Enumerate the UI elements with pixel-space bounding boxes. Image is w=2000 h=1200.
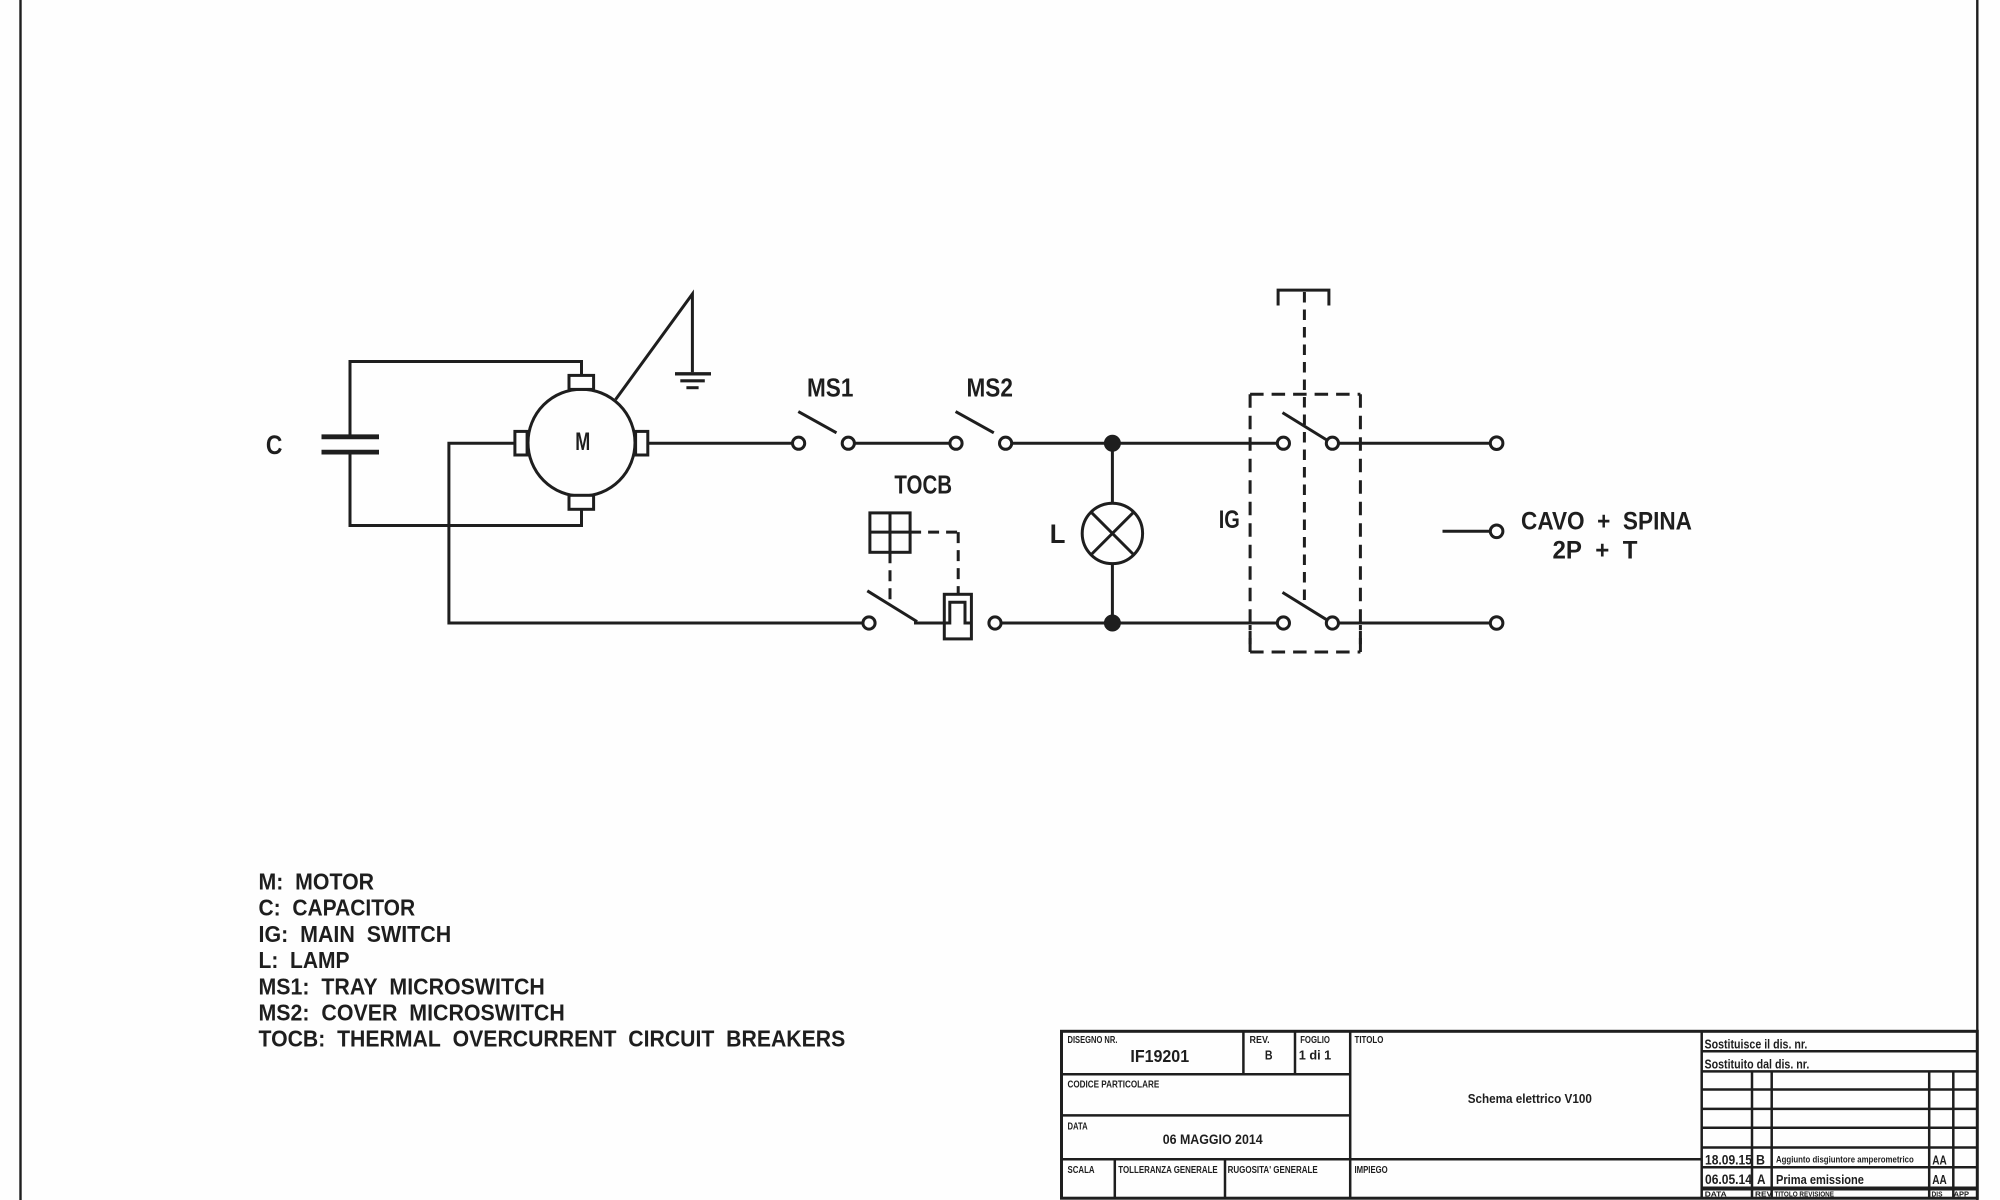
svg-text:MS1: MS1 [807,374,853,403]
svg-text:IF19201: IF19201 [1130,1046,1189,1066]
svg-text:AA: AA [1932,1174,1946,1187]
svg-text:Aggiunto disgiuntore amperomet: Aggiunto disgiuntore amperometrico [1776,1154,1914,1165]
svg-text:Sostituito dal dis. nr.: Sostituito dal dis. nr. [1705,1056,1810,1071]
svg-text:APP: APP [1954,1190,1969,1199]
svg-text:A: A [1757,1172,1765,1187]
svg-text:MS2: COVER MICROSWITCH: MS2: COVER MICROSWITCH [259,1000,565,1026]
svg-text:06 MAGGIO 2014: 06 MAGGIO 2014 [1163,1131,1264,1147]
svg-text:REV.: REV. [1250,1035,1270,1047]
svg-text:SCALA: SCALA [1068,1164,1096,1175]
svg-text:B: B [1756,1152,1765,1168]
svg-text:IG: MAIN SWITCH: IG: MAIN SWITCH [259,921,452,947]
svg-text:FOGLIO: FOGLIO [1300,1034,1330,1045]
svg-text:L: LAMP: L: LAMP [259,947,350,973]
svg-text:TITOLO: TITOLO [1355,1034,1384,1045]
svg-text:DATA: DATA [1068,1120,1089,1131]
svg-text:B: B [1265,1047,1273,1062]
svg-text:C: CAPACITOR: C: CAPACITOR [259,895,416,921]
svg-text:DATA: DATA [1705,1190,1727,1198]
svg-text:TOCB: TOCB [894,470,952,499]
svg-text:RUGOSITA' GENERALE: RUGOSITA' GENERALE [1228,1164,1318,1175]
svg-text:CAVO + SPINA: CAVO + SPINA [1521,507,1692,535]
svg-text:C: C [266,430,283,460]
svg-text:TOLLERANZA GENERALE: TOLLERANZA GENERALE [1118,1164,1217,1175]
svg-text:06.05.14: 06.05.14 [1705,1171,1753,1187]
svg-text:L: L [1050,518,1066,549]
svg-text:IMPIEGO: IMPIEGO [1355,1164,1388,1175]
svg-text:Schema elettrico V100: Schema elettrico V100 [1468,1091,1592,1106]
svg-text:MS2: MS2 [967,374,1013,403]
svg-text:M: M [575,427,590,456]
svg-text:DIS: DIS [1932,1191,1943,1198]
svg-text:Sostituisce il dis. nr.: Sostituisce il dis. nr. [1705,1036,1808,1051]
svg-text:MS1: TRAY MICROSWITCH: MS1: TRAY MICROSWITCH [259,974,545,1000]
svg-text:AA: AA [1932,1155,1946,1168]
svg-text:1 di 1: 1 di 1 [1299,1047,1332,1062]
svg-text:DISEGNO NR.: DISEGNO NR. [1068,1034,1118,1045]
svg-text:IG: IG [1219,506,1240,534]
svg-text:TITOLO REVISIONE: TITOLO REVISIONE [1775,1191,1835,1199]
svg-text:TOCB: THERMAL OVERCURRENT C: TOCB: THERMAL OVERCURRENT CIRCUIT BREAKE… [259,1026,846,1052]
svg-text:REV: REV [1755,1190,1773,1199]
svg-text:CODICE PARTICOLARE: CODICE PARTICOLARE [1068,1079,1160,1090]
svg-text:18.09.15: 18.09.15 [1705,1152,1752,1168]
svg-text:Prima emissione: Prima emissione [1776,1172,1864,1187]
svg-text:2P + T: 2P + T [1553,537,1638,565]
svg-text:M: MOTOR: M: MOTOR [259,869,375,895]
